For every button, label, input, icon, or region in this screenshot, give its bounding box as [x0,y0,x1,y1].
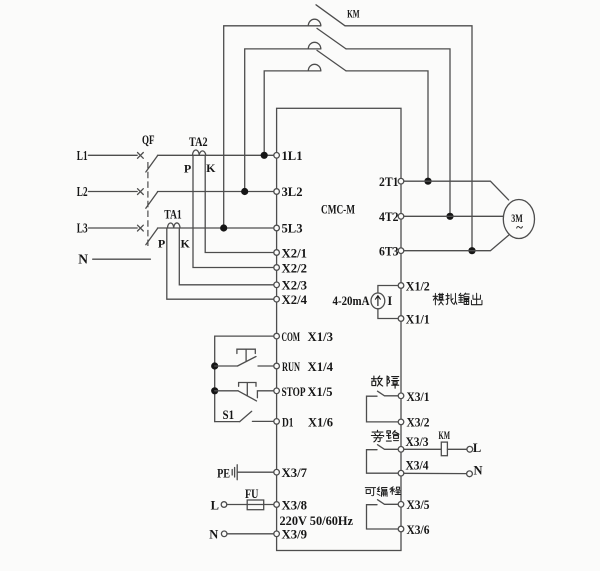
wire TA1-P to X2/4 [167,228,277,299]
terminal 6T3 [398,248,404,254]
junction on L2 [241,188,248,195]
terminal X2/3 [274,282,280,288]
QF linkage dashed [147,162,149,246]
QF blade L1 [146,156,158,172]
svg-text:X3/2: X3/2 [407,415,430,430]
wire N stub [93,258,151,260]
terminal X2/2 [274,265,280,271]
terminal X2/1 [274,250,280,256]
svg-text:K: K [181,237,191,251]
S1 blade [240,411,252,421]
analog output label 模拟输出 [433,293,482,305]
junction on L3 [220,224,227,231]
relay fault label 故障 [372,376,399,388]
terminal X3/3 [398,447,404,453]
svg-text:COM: COM [282,329,301,344]
KM pole 1 (L3 to 6T3): wire up from L3 [224,26,321,228]
KM pole 1 blade [316,5,345,26]
wire N to X3/9 [227,533,277,535]
pushbutton STOP (NC): left lead [215,390,238,392]
fuse FU body [247,500,264,510]
svg-text:FU: FU [245,487,259,501]
terminal X1/1 [398,316,404,322]
motor 3M [503,200,534,239]
svg-text:N: N [209,528,218,542]
wire KM pole 3 to 2T1 [346,71,428,181]
KM pole 2 (L2 to 4T2): wire up from L2 [245,49,321,192]
wire 6T3 to motor [401,235,509,251]
terminal X3/6 [398,526,404,532]
wire coil to L [447,448,466,450]
svg-text:X3/3: X3/3 [406,434,429,449]
svg-text:N: N [78,251,88,266]
wire KM pole 1 to 6T3 [345,26,472,251]
terminal X2/4 [274,296,280,302]
svg-text:1L1: 1L1 [282,148,303,163]
svg-text:QF: QF [142,133,155,147]
terminal X3/5 [398,502,404,508]
svg-text:2T1: 2T1 [379,174,399,189]
wire QF to 1L1 [158,154,277,156]
svg-text:STOP: STOP [282,384,306,399]
terminal COM X1/3 [274,333,280,339]
svg-text:X3/5: X3/5 [407,497,430,512]
ground symbol PE [232,465,237,480]
svg-text:KM: KM [347,9,360,21]
wire QF to 3L2 [158,191,277,193]
terminal X3/8 [274,502,280,508]
terminal RUN X1/4 [274,363,280,369]
soft starter box U1 CMC-M [277,108,401,550]
terminal N (right) circle [467,471,473,477]
svg-text:5L3: 5L3 [282,221,303,236]
svg-text:4T2: 4T2 [379,209,399,224]
terminal X3/2 [398,419,404,425]
terminal X3/9 [274,531,280,537]
terminal 3L2 [274,189,280,195]
wire TA1-K to X2/3 [179,228,276,285]
svg-text:D1: D1 [282,414,294,429]
svg-text:X2/1: X2/1 [282,245,308,260]
relay fault contact X3/1-X3/2 [367,391,402,422]
svg-text:KM: KM [439,430,451,442]
terminal 1L1 [274,153,280,159]
junction on L1 [261,152,268,159]
relay programmable contact X3/5-X3/6 [367,500,402,529]
svg-text:X2/3: X2/3 [282,278,308,293]
QF blade L2 [146,192,158,208]
wire L2 to QF [88,191,137,193]
wire 2T1 to motor [401,181,509,200]
svg-text:X1/5: X1/5 [308,384,333,399]
svg-text:P: P [158,237,165,251]
KM pole 3 (L1 to 2T1): wire up from L1 [264,71,321,155]
QF contact cross L3 [138,225,144,231]
terminal D1 X1/6 [274,419,280,425]
wire TA2-P to X2/2 [193,155,277,267]
QF contact cross L2 [138,189,144,195]
terminal 4T2 [398,214,404,220]
svg-text:X1/2: X1/2 [406,278,430,293]
wire 4T2 to motor [401,215,503,217]
KM pole 2 blade [317,28,346,49]
svg-text:TA1: TA1 [164,207,182,221]
svg-text:X1/3: X1/3 [308,329,334,344]
QF contact cross L1 [138,153,144,159]
svg-text:L2: L2 [77,184,88,199]
wire X3/4 to N [401,472,467,474]
svg-text:6T3: 6T3 [379,244,399,259]
wire X3/3 to coil [401,448,441,450]
RUN fixed lead [258,365,277,367]
svg-text:P: P [184,162,191,176]
wire QF to 5L3 [158,227,277,229]
wire fuse to X3/8 [264,504,277,506]
svg-text:PE: PE [217,467,230,481]
KM pole 1 hinge arc [308,19,321,26]
STOP fixed lead with stop stub [257,391,276,398]
svg-text:4-20mA: 4-20mA [333,294,370,308]
junction on 4T2 [446,213,453,220]
svg-text:X1/6: X1/6 [308,414,333,429]
wire L1 to QF [88,154,137,156]
terminal 5L3 [274,225,280,231]
svg-text:L: L [473,441,481,455]
terminal L circle [221,502,227,508]
terminal X1/2 [398,283,404,289]
relay bypass label 旁路 [371,430,399,442]
svg-text:X2/2: X2/2 [282,260,308,275]
svg-text:X1/4: X1/4 [308,359,334,374]
svg-text:X3/8: X3/8 [282,497,308,512]
svg-text:X3/7: X3/7 [282,465,308,480]
svg-text:3L2: 3L2 [282,184,303,199]
terminal X3/4 [398,470,404,476]
wire KM pole 2 to 4T2 [346,49,450,216]
svg-text:X3/6: X3/6 [407,522,430,537]
STOP actuator [239,383,256,396]
svg-text:N: N [473,463,482,477]
svg-text:L3: L3 [77,221,88,236]
junction on 6T3 [468,247,475,254]
svg-text:L1: L1 [77,148,88,163]
junction on 2T1 [424,178,431,185]
CT TA1 winding [168,223,181,228]
terminal STOP X1/5 [274,388,280,394]
svg-text:X3/9: X3/9 [282,527,308,542]
control common rail wire [215,336,277,422]
RUN actuator [237,349,255,361]
KM pole 3 blade [317,50,346,71]
terminal 2T1 [398,178,404,184]
svg-text:X1/1: X1/1 [406,311,430,326]
pushbutton RUN (NO): left lead [215,365,238,367]
terminal L (right) circle [467,446,473,452]
relay programmable label 可编程 [365,487,400,497]
RUN blade [238,357,257,367]
S1 left lead [215,421,240,423]
svg-text:X2/4: X2/4 [282,292,308,307]
KM pole 2 hinge arc [308,42,321,49]
wire L3 to QF [88,227,137,229]
wire fuse inner [247,504,264,506]
svg-text:X3/4: X3/4 [406,458,429,473]
svg-text:RUN: RUN [282,359,300,374]
junction STOP rail [211,387,218,394]
wire L to fuse [227,504,247,506]
current source circle with arrow [371,293,385,309]
terminal N circle [221,531,227,537]
QF blade L3 [146,229,158,245]
S1 fixed lead to D1 [252,420,276,422]
wire X1/2 to current source [378,286,401,294]
svg-text:~: ~ [516,220,523,235]
svg-text:I: I [387,294,392,308]
wire PE to X3/7 [237,471,276,473]
svg-text:X3/1: X3/1 [407,389,430,404]
svg-text:L: L [211,498,219,512]
wire current source to X1/1 [378,309,401,319]
KM pole 3 hinge arc [308,64,321,71]
svg-text:S1: S1 [223,408,235,422]
relay bypass contact X3/3-X3/4 [367,445,402,474]
svg-text:CMC-M: CMC-M [321,202,355,217]
CT TA2 winding [193,150,206,155]
terminal X3/1 [398,393,404,399]
svg-text:K: K [206,161,216,175]
wire TA2-K to X2/1 [205,155,276,252]
STOP blade [238,391,257,401]
terminal X3/7 [274,469,280,475]
svg-text:TA2: TA2 [189,135,208,149]
coil KM body [441,442,447,456]
junction RUN rail [211,362,218,369]
